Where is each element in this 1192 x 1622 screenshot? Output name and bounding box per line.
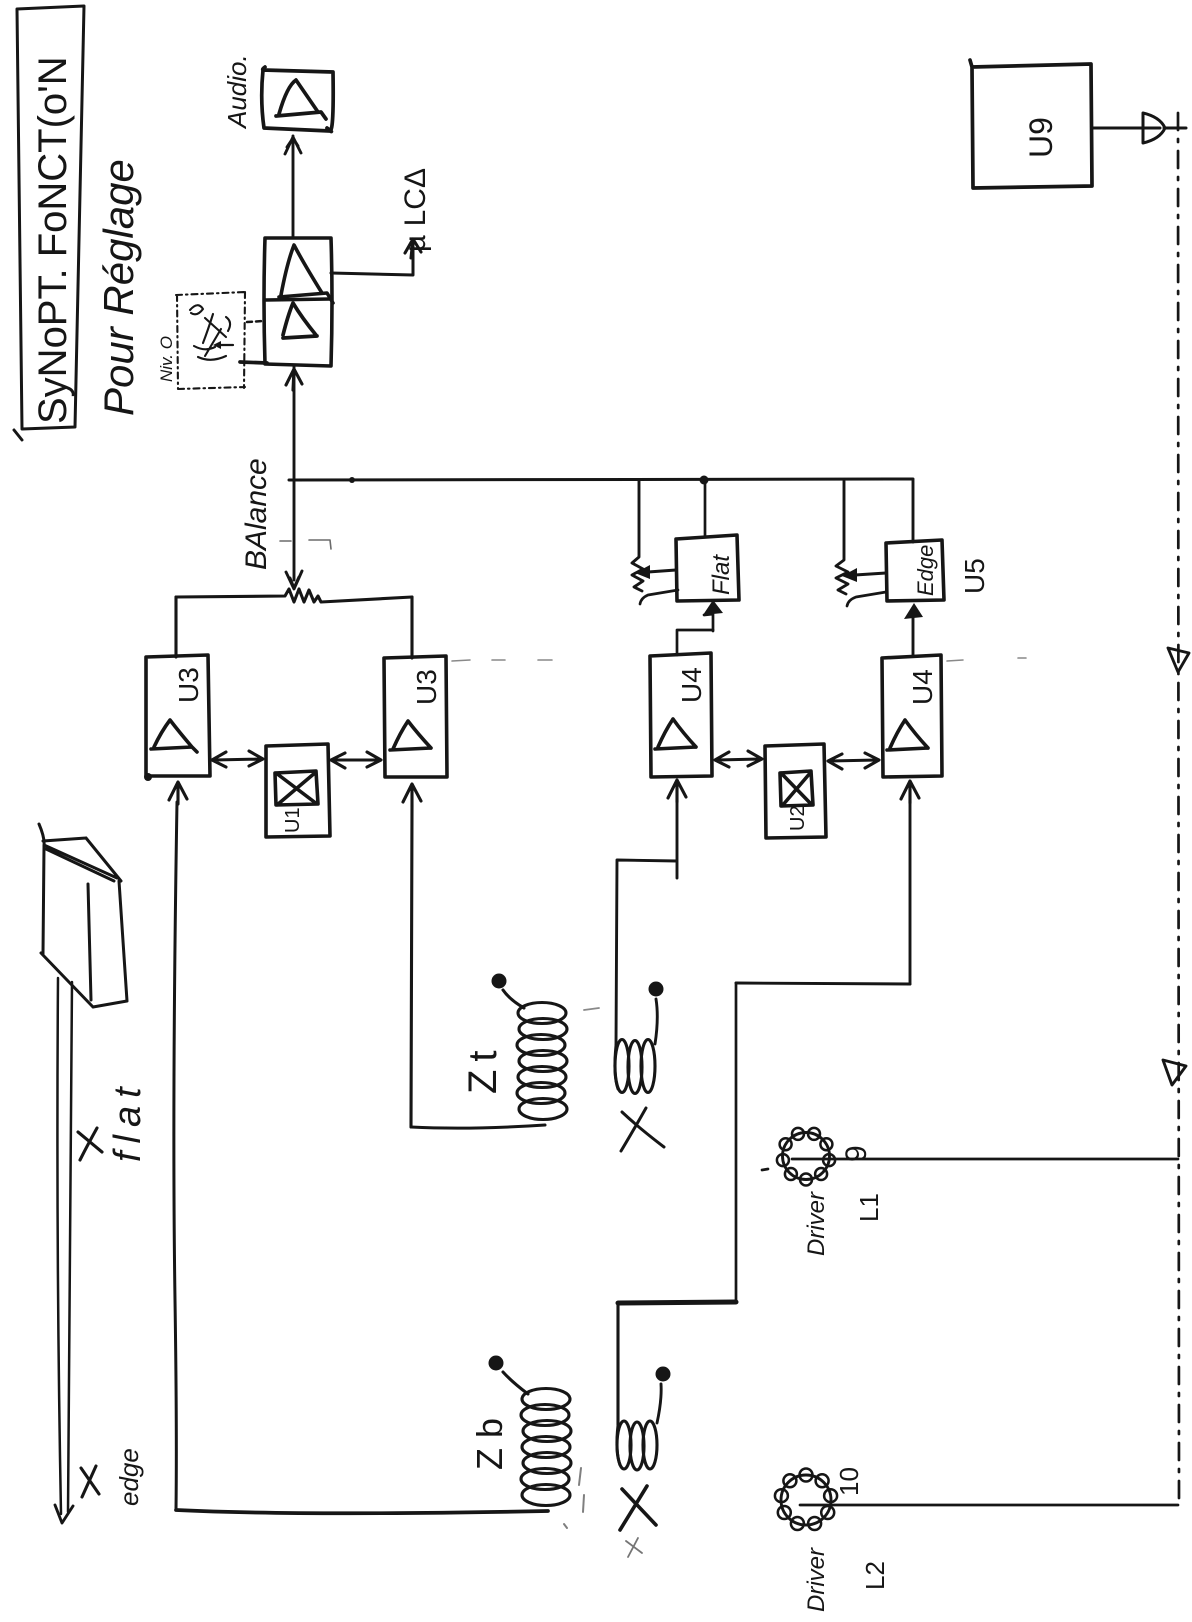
mixer U2 box bbox=[765, 744, 826, 838]
wire to U3 left bbox=[174, 597, 177, 657]
arrowhead on dashed line upper bbox=[1168, 648, 1189, 672]
probe slab 3d box bbox=[39, 824, 127, 1007]
svg-text:L2: L2 bbox=[860, 1561, 890, 1590]
edge box bbox=[886, 540, 944, 601]
Zt coil top lead bbox=[503, 990, 524, 1008]
edge pot lower tail bbox=[847, 592, 886, 606]
inductor X coil 2 bbox=[617, 1421, 631, 1469]
wire to uLCD bbox=[331, 243, 413, 275]
probe stem lines bbox=[57, 978, 72, 1514]
U9 arrowhead bulb bbox=[1143, 113, 1165, 143]
coil2 top lead bbox=[657, 1384, 661, 1423]
wire U3L input long vertical bbox=[174, 802, 177, 1510]
wire to Zt coil bbox=[411, 1125, 545, 1128]
junction blob bbox=[349, 477, 355, 483]
svg-text:BAlance: BAlance bbox=[240, 458, 273, 570]
ic U9 box bbox=[970, 60, 1092, 188]
svg-text:Driver: Driver bbox=[803, 1191, 830, 1256]
U4 left triangle bbox=[655, 719, 696, 749]
double arrow U4L-U2 bbox=[715, 751, 762, 767]
Y mark bbox=[78, 1128, 102, 1160]
wire amp output down bbox=[293, 366, 296, 479]
wire to U3 right bbox=[410, 597, 413, 658]
pencil tick marks bbox=[280, 540, 331, 549]
wire L1 to dashed line bbox=[762, 1159, 1178, 1170]
svg-text:edge: edge bbox=[114, 1448, 144, 1506]
edge pot resistor bbox=[836, 481, 848, 594]
flat pot lower tail bbox=[640, 590, 678, 604]
double arrow U3L-U1 bbox=[212, 751, 263, 767]
X mark near coil1 bbox=[621, 1108, 664, 1151]
svg-text:U5: U5 bbox=[959, 558, 990, 594]
svg-text:Niv. O: Niv. O bbox=[157, 336, 176, 382]
probe tip arrowhead bbox=[55, 1505, 73, 1523]
wire balance down bbox=[293, 481, 296, 580]
U1 X-square bbox=[275, 771, 318, 805]
arrowhead into amp bottom bbox=[286, 369, 302, 390]
op-amp U4 right box bbox=[882, 655, 942, 777]
svg-text:Driver: Driver bbox=[803, 1547, 830, 1612]
amp triangle lower bbox=[283, 303, 317, 338]
svg-text:Zb: Zb bbox=[469, 1408, 510, 1470]
wire bottom horizontal to Zb coil bbox=[176, 1510, 548, 1513]
arrowhead into U3 left bottom bbox=[169, 782, 187, 804]
dashed link to amp bbox=[247, 321, 264, 322]
svg-text:Zt: Zt bbox=[461, 1042, 505, 1094]
svg-text:L1: L1 bbox=[854, 1193, 884, 1222]
faint dashes right of U3R bbox=[452, 660, 552, 661]
flat box bbox=[676, 535, 739, 601]
op-amp U3 right box bbox=[384, 656, 447, 777]
amplifier block U (two stages) bbox=[264, 238, 332, 366]
wire audio to amp bbox=[292, 136, 295, 238]
arrowhead into edge bottom bbox=[912, 618, 915, 656]
wire U4R input down bbox=[909, 801, 912, 984]
double arrow U1-U3R bbox=[331, 752, 381, 768]
svg-text:10: 10 bbox=[834, 1467, 864, 1496]
svg-text:U9: U9 bbox=[1023, 117, 1059, 158]
faint dash right of Zt bbox=[584, 1008, 599, 1010]
dashed net line right bbox=[1178, 113, 1179, 1505]
Zb coil top lead bbox=[503, 1372, 528, 1394]
svg-text:9: 9 bbox=[840, 1145, 873, 1162]
faint dashes right of U4R bbox=[947, 658, 1026, 661]
thick bar wire bbox=[618, 1302, 736, 1303]
junction dot bbox=[700, 476, 709, 485]
svg-text:Pour Réglage: Pour Réglage bbox=[95, 159, 142, 416]
svg-text:Flat: Flat bbox=[708, 554, 735, 595]
title box bbox=[14, 6, 84, 440]
wire vertical x736 bbox=[735, 983, 738, 1301]
wire U3R input vertical bbox=[411, 806, 412, 1127]
audio amp triangle bbox=[276, 80, 326, 119]
X mark left bbox=[81, 1466, 99, 1497]
svg-text:SyNoPT. FoNCT(o'N: SyNoPT. FoNCT(o'N bbox=[31, 56, 75, 424]
svg-text:U3: U3 bbox=[411, 669, 442, 705]
niv arrow bbox=[218, 344, 233, 346]
wire horizontal y984 bbox=[736, 983, 910, 984]
wire bus to flat top bbox=[704, 481, 707, 537]
faint dashes right of Zb bbox=[564, 1468, 584, 1528]
op-amp U4 left box bbox=[650, 653, 712, 777]
coil1 top lead bbox=[655, 999, 657, 1044]
arrowhead into audio box bbox=[285, 137, 301, 154]
coil1 terminal dot bbox=[649, 982, 664, 997]
transformer driver L2 toroid bbox=[781, 1475, 831, 1525]
svg-text:U3: U3 bbox=[173, 667, 204, 703]
horizontal bus wire bbox=[289, 479, 913, 480]
mixer U1 box bbox=[266, 744, 330, 837]
wire flat to U4L bbox=[677, 630, 713, 655]
dashed niv box bbox=[176, 292, 246, 389]
arrowhead into flat bottom bbox=[704, 614, 713, 631]
flat pot wiper arrow bbox=[648, 570, 676, 572]
niv box scribbles bbox=[190, 305, 230, 360]
amp triangle upper bbox=[279, 245, 333, 303]
arrowhead down onto balance pot bbox=[286, 571, 302, 589]
edge pot wiper arrow bbox=[855, 573, 886, 575]
op-amp U3 left box bbox=[146, 655, 210, 776]
flat pot resistor bbox=[632, 481, 643, 591]
arrowhead on dashed line lower bbox=[1163, 1060, 1186, 1085]
balance resistor wire bbox=[176, 589, 412, 602]
svg-text:Edge: Edge bbox=[913, 545, 938, 596]
wire U4L input elbow bbox=[616, 800, 677, 1045]
svg-text:U1: U1 bbox=[282, 807, 304, 833]
X mark near coil2 bbox=[620, 1486, 656, 1530]
wire down to coil2 bbox=[616, 1303, 619, 1425]
audio monitor box bbox=[262, 67, 333, 132]
svg-text:flat: flat bbox=[107, 1079, 149, 1162]
U3 left triangle bbox=[151, 720, 197, 752]
coil2 terminal dot bbox=[656, 1367, 671, 1382]
inductor Zb coil bbox=[522, 1389, 570, 1410]
double arrow U2-U4R bbox=[828, 753, 879, 769]
U4 right triangle bbox=[887, 720, 928, 750]
Zb terminal dot bbox=[489, 1356, 504, 1371]
corner dot bbox=[144, 773, 152, 781]
svg-text:U4: U4 bbox=[676, 667, 707, 703]
inductor Zt coil bbox=[518, 1003, 566, 1024]
svg-text:Audio.: Audio. bbox=[222, 54, 252, 130]
arrowhead into U3 right bottom bbox=[403, 784, 421, 806]
arrowhead up uLCD bbox=[405, 239, 421, 258]
transformer driver L1 toroid bbox=[783, 1133, 830, 1180]
wire L2 to dashed line bbox=[800, 1504, 1178, 1507]
svg-text:U4: U4 bbox=[907, 669, 938, 705]
svg-text:U2: U2 bbox=[787, 805, 809, 831]
link niv box to amp bottom bbox=[240, 362, 267, 363]
U2 X-square bbox=[780, 771, 813, 806]
arrowhead into U4 left bottom bbox=[668, 780, 686, 802]
small x mark bbox=[626, 1538, 642, 1557]
wire bus corner to edge top bbox=[912, 480, 915, 542]
U3 right triangle bbox=[390, 721, 431, 750]
inductor X coil 1 bbox=[615, 1040, 629, 1093]
svg-text:µ LCΔ: µ LCΔ bbox=[399, 168, 432, 252]
wire U9 output arrow bbox=[1092, 127, 1186, 130]
Zt terminal dot bbox=[492, 974, 507, 989]
arrowhead into U4 right bottom bbox=[901, 781, 919, 803]
